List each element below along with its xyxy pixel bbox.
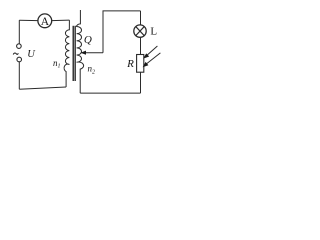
svg-text:A: A [41, 16, 50, 28]
svg-text:n2: n2 [87, 64, 95, 76]
svg-text:U: U [27, 49, 36, 60]
svg-text:R: R [126, 58, 134, 70]
svg-text:L: L [150, 25, 157, 37]
svg-text:n1: n1 [53, 58, 61, 70]
svg-text:Q: Q [84, 34, 92, 46]
